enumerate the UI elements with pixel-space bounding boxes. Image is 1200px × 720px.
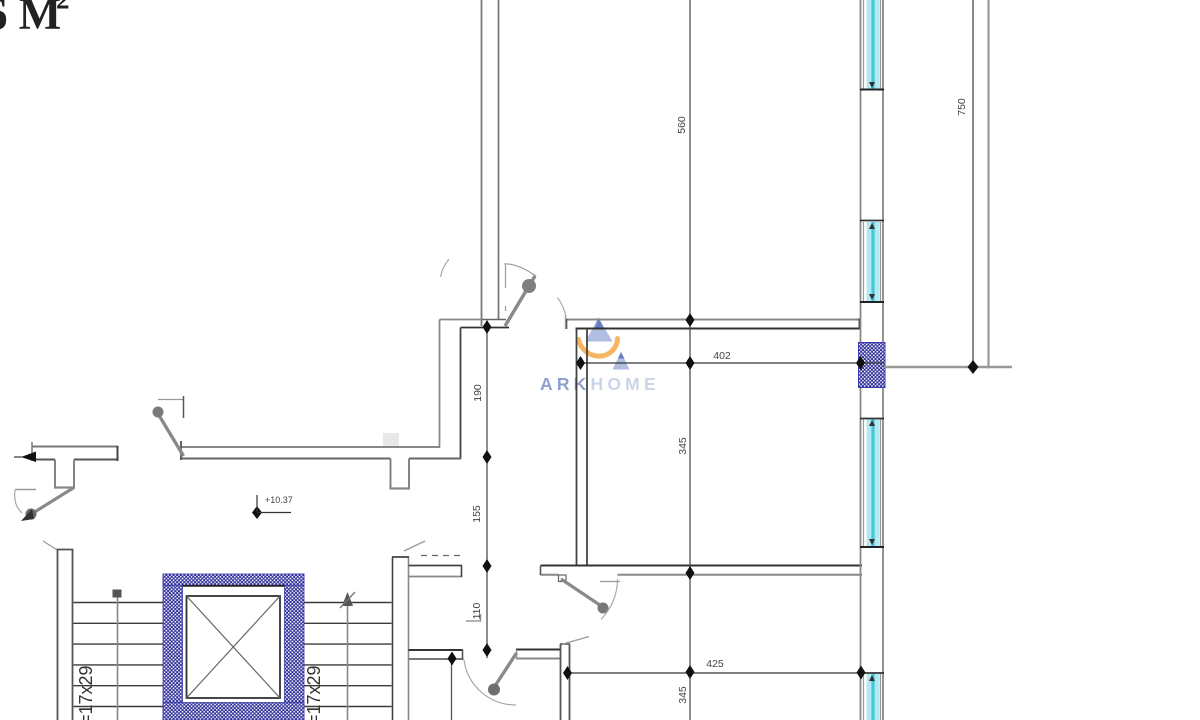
svg-text:402: 402 xyxy=(713,350,731,362)
svg-text:ARKHOME: ARKHOME xyxy=(540,374,660,394)
svg-text:+10.37: +10.37 xyxy=(265,495,293,505)
svg-text:s=17x29: s=17x29 xyxy=(76,665,96,720)
svg-text:6 М: 6 М xyxy=(0,0,61,39)
svg-text:155: 155 xyxy=(471,505,483,523)
svg-text:190: 190 xyxy=(472,384,484,402)
svg-text:345: 345 xyxy=(677,686,689,704)
svg-text:425: 425 xyxy=(706,658,724,670)
svg-text:750: 750 xyxy=(956,98,968,116)
svg-text:345: 345 xyxy=(677,437,689,455)
svg-text:s=17x29: s=17x29 xyxy=(304,665,324,720)
svg-text:110: 110 xyxy=(471,602,483,619)
svg-text:560: 560 xyxy=(676,116,688,134)
svg-text:2: 2 xyxy=(56,0,70,15)
